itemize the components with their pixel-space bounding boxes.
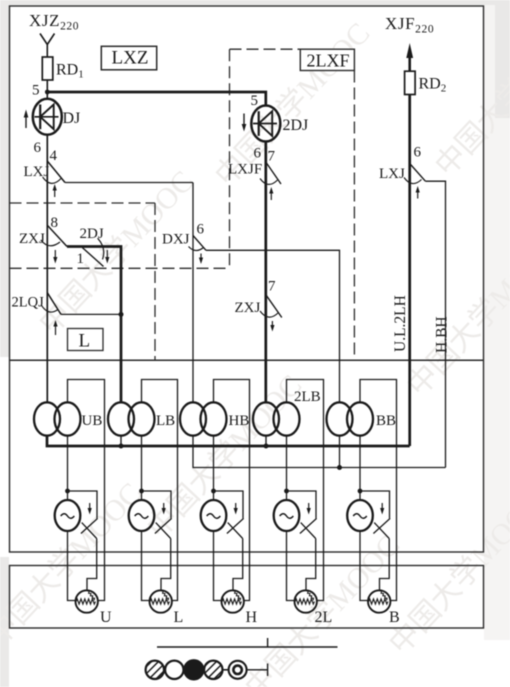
- fuse RD1: [42, 57, 53, 80]
- BB secondary loop wire: [360, 380, 397, 601]
- signal head lens 1 (hatched): [146, 661, 164, 679]
- transformer UB: [34, 402, 81, 435]
- lamp box (box 3): [10, 566, 484, 629]
- lamp transformer U (AC): [55, 500, 81, 531]
- svg-text:LB: LB: [156, 413, 175, 429]
- arrester branch L: [142, 491, 172, 518]
- bus junction dot LB: [119, 444, 124, 449]
- svg-text:HB: HB: [229, 413, 250, 429]
- svg-text:1: 1: [77, 251, 85, 267]
- svg-text:5: 5: [251, 93, 259, 109]
- svg-text:ZXJ: ZXJ: [19, 231, 45, 247]
- signal mast stem: [223, 669, 229, 671]
- wire 2LQJ branch to junction: [61, 313, 121, 315]
- transformer BB: [327, 402, 374, 435]
- lamp transformer 2L (AC): [274, 500, 300, 531]
- bold wire junction down to LB: [120, 314, 123, 403]
- wire DJ to LXJ contact: [46, 135, 48, 226]
- dashed 2LXF box top edge: [230, 48, 302, 50]
- fuse RD2: [405, 71, 416, 94]
- wire LXJ4 branch to DXJ: [65, 182, 193, 184]
- svg-text:2DJ: 2DJ: [283, 117, 309, 134]
- dashed 2LXF box left edge: [229, 49, 231, 268]
- label box LXZ: [101, 46, 156, 70]
- mast base double circle: [229, 661, 247, 679]
- boundary line between relay and transformer sections: [10, 359, 484, 361]
- lamp transformer H (AC): [201, 500, 227, 531]
- svg-text:DXJ: DXJ: [162, 232, 190, 248]
- dashed 2LXF box right edge: [353, 71, 355, 361]
- svg-text:DJ: DJ: [63, 110, 81, 127]
- 2DJ down arrow: [242, 114, 247, 132]
- junction dot: [119, 312, 124, 317]
- wire DXJ branch to BB: [206, 250, 340, 403]
- svg-text:2DJ: 2DJ: [80, 226, 104, 242]
- svg-text:LXZ: LXZ: [112, 48, 149, 69]
- signal lamp H: [222, 590, 244, 612]
- svg-text:5: 5: [32, 83, 40, 99]
- section border box 1 (relay section) + boundary + box 2 (transformer section): [10, 6, 484, 552]
- UB secondary bottom to lamp unit: [67, 436, 69, 501]
- svg-text:7: 7: [268, 149, 276, 165]
- svg-text:6: 6: [254, 146, 262, 162]
- svg-text:2LB: 2LB: [294, 389, 321, 405]
- wire main line LXJ to 2LQJ: [46, 226, 48, 293]
- signal lamp 2L: [295, 590, 317, 612]
- 2LB secondary loop wire: [287, 380, 324, 601]
- dashed unit boundary: left box top: [10, 202, 156, 204]
- wire DXJ vertical (LXJ4 branch down to HB): [192, 183, 194, 404]
- wire lamp~ to lamp U left: [68, 531, 77, 600]
- svg-text:BB: BB: [376, 413, 396, 429]
- svg-text:7: 7: [268, 279, 276, 295]
- signal lamp B: [368, 590, 390, 612]
- arrester branch B: [360, 491, 390, 518]
- label box 2LXF: [300, 49, 354, 70]
- LB secondary loop wire: [142, 380, 178, 601]
- svg-text:2LQJ: 2LQJ: [12, 295, 45, 311]
- wire XJZ to RD1: [46, 45, 48, 58]
- svg-text:U: U: [100, 609, 112, 626]
- wire main line down to UB: [46, 293, 48, 403]
- signal lamp L: [150, 590, 172, 612]
- svg-text:H.BH: H.BH: [434, 316, 451, 353]
- svg-text:8: 8: [51, 215, 59, 231]
- dashed unit boundary: left box right edge: [154, 203, 156, 360]
- wire LXJ6 branch to H.BH line: [425, 181, 445, 467]
- node 5 (left): [45, 90, 50, 95]
- signal lamp U: [76, 590, 98, 612]
- BB primary bottom to H.B return, junction dot: [339, 436, 341, 468]
- relay DJ: [33, 99, 62, 135]
- bus junction dot 2LB: [264, 444, 269, 449]
- arrester branch U: [68, 491, 98, 518]
- lamp transformer B (AC): [347, 500, 373, 531]
- dashed unit boundary: horizontal at y 268: [10, 267, 230, 269]
- transformer HB: [180, 402, 227, 435]
- H.B return line: [193, 436, 446, 468]
- svg-text:LXJF: LXJF: [228, 162, 262, 178]
- svg-text:H: H: [246, 609, 258, 626]
- signal head lens 3 (lit, solid): [184, 660, 204, 680]
- relay 2DJ: [251, 106, 280, 142]
- lamp transformer L (AC): [129, 500, 155, 531]
- signal mast line: [157, 646, 338, 648]
- DJ up arrow: [24, 110, 29, 129]
- signal head lens 4 (hatched): [204, 661, 222, 679]
- transformer 2LB: [253, 402, 300, 435]
- arrester branch 2L: [287, 491, 317, 518]
- svg-text:ZXJ: ZXJ: [235, 300, 261, 316]
- UB secondary loop wire: [68, 380, 105, 601]
- svg-text:U.L.2LH: U.L.2LH: [392, 295, 409, 352]
- mast ground line: [247, 669, 268, 671]
- wire RD1 to node 5: [46, 80, 48, 99]
- 2LB primary bottom to bus: [265, 436, 267, 446]
- svg-text:2LXF: 2LXF: [307, 51, 350, 71]
- svg-text:2L: 2L: [315, 609, 333, 626]
- svg-text:L: L: [174, 609, 184, 626]
- arrester branch H: [214, 491, 244, 518]
- wire node5 to 2DJ (bold): [47, 92, 265, 107]
- svg-text:LXJ: LXJ: [24, 164, 50, 180]
- svg-text:6: 6: [34, 140, 42, 156]
- svg-text:4: 4: [50, 148, 58, 164]
- svg-text:6: 6: [414, 145, 422, 161]
- contact LXJ 4: [43, 161, 65, 197]
- bold common bus: [47, 436, 410, 446]
- signal head lens 2 (clear): [165, 661, 183, 679]
- svg-text:B: B: [389, 609, 400, 626]
- bold wire ZXJ8 to corner: [67, 247, 121, 315]
- svg-text:UB: UB: [82, 413, 103, 429]
- label box L: [68, 329, 104, 351]
- svg-text:L: L: [79, 331, 91, 352]
- HB secondary loop wire: [214, 380, 250, 601]
- bold wire 2DJ down through LXJF and ZXJ7 to 2LB: [264, 141, 267, 403]
- transformer LB: [108, 402, 155, 435]
- svg-text:6: 6: [197, 222, 205, 238]
- svg-text:LXJ: LXJ: [379, 166, 405, 182]
- XJF up arrow (bold): [406, 43, 413, 71]
- LB primary bottom to bus: [120, 436, 122, 446]
- bold wire RD2 down through LXJ6, to bus: [408, 95, 411, 447]
